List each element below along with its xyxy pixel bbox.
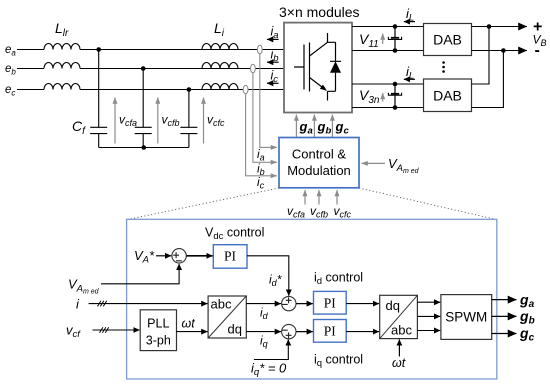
arrow sum2 to PI2 xyxy=(296,303,313,305)
inductor Llr phase c xyxy=(44,84,80,90)
arrow out gc xyxy=(492,333,517,335)
svg-text:Control &: Control & xyxy=(292,147,347,162)
PI block 3 xyxy=(314,320,347,343)
svg-text:dq: dq xyxy=(386,298,400,313)
wire module out D xyxy=(352,107,424,109)
capacitor Cf phase a xyxy=(90,50,107,148)
arrow id to sum2 xyxy=(246,303,281,305)
SPWM block xyxy=(441,295,492,340)
svg-text:abc: abc xyxy=(211,297,232,312)
PLL block xyxy=(140,310,176,351)
svg-text:3-ph: 3-ph xyxy=(146,334,171,348)
arrow V11 xyxy=(382,34,384,45)
svg-text:PI: PI xyxy=(224,249,237,264)
arrow VA* into sum1 xyxy=(156,255,171,257)
wire plus rail to DAB2 xyxy=(472,27,490,85)
svg-text:dq: dq xyxy=(228,322,242,337)
current sensor phase c xyxy=(243,85,248,93)
svg-text:3×n modules: 3×n modules xyxy=(279,4,360,20)
wire iq* = 0 to sum3 xyxy=(254,339,288,359)
inductor Li phase a xyxy=(202,44,238,50)
summing junction S2 xyxy=(282,296,296,310)
inductor Llr phase b xyxy=(44,63,80,69)
converter module box xyxy=(284,23,352,113)
wire minus rail to DAB2 xyxy=(472,51,504,108)
Control and Modulation box xyxy=(279,138,359,188)
wire sensor a to control xyxy=(260,54,277,148)
svg-text:Modulation: Modulation xyxy=(287,163,351,178)
wire module out B xyxy=(352,50,424,52)
abc-dq block xyxy=(208,296,246,338)
arrow sum3 to PI3 xyxy=(296,331,313,333)
svg-text:-: - xyxy=(535,42,540,59)
wire DAB1 to plus xyxy=(472,26,528,28)
arrows dq-abc to SPWM xyxy=(417,301,440,303)
arrow vcfa xyxy=(114,98,116,144)
DAB box 1 xyxy=(424,24,472,56)
svg-text:PLL: PLL xyxy=(147,317,169,331)
three-phase slash vcf xyxy=(100,327,109,333)
capacitor V3n xyxy=(388,84,401,108)
wire sensor c to control xyxy=(246,94,277,176)
IGBT emitter arrow xyxy=(320,85,327,91)
wire phase c xyxy=(17,89,284,91)
svg-text:PI: PI xyxy=(324,324,337,339)
detail outer box xyxy=(127,219,497,379)
node on eb xyxy=(141,66,146,71)
svg-text:abc: abc xyxy=(391,323,412,338)
arrow sum1 to PI1 xyxy=(186,255,212,257)
inductor Li phase c xyxy=(202,84,238,90)
wire sensor b to control xyxy=(253,72,277,162)
wire phase a xyxy=(17,49,284,51)
summing junction S3 xyxy=(282,324,296,338)
wire PI1 to sum2 xyxy=(247,256,289,296)
wire vcf to PLL xyxy=(93,329,140,331)
dots vertical ellipsis xyxy=(442,61,445,73)
wire phase b xyxy=(17,68,284,70)
dq-abc block xyxy=(380,295,418,338)
svg-text:ωt: ωt xyxy=(182,317,196,331)
summing junction S1 xyxy=(172,249,186,263)
node bus xyxy=(142,145,147,150)
IGBT Q1 xyxy=(294,33,336,101)
capacitor Cf phase c xyxy=(180,90,197,148)
capacitor V11 xyxy=(388,27,401,51)
arrow vcfc xyxy=(203,98,205,144)
callout dotted right xyxy=(359,188,497,220)
callout dotted left xyxy=(127,188,279,220)
arrow wt 2 xyxy=(398,339,400,356)
svg-text:SPWM: SPWM xyxy=(445,310,487,325)
svg-text:DAB: DAB xyxy=(433,88,462,104)
node plus rail xyxy=(487,24,492,29)
gate arrows ga gb gc into module xyxy=(295,115,297,138)
capacitor Cf phase b xyxy=(135,69,152,148)
wire module out A xyxy=(352,26,424,28)
node on ec xyxy=(187,87,192,92)
arrows vcf into control bottom xyxy=(304,190,306,205)
wire i to abc-dq xyxy=(89,303,208,305)
DAB box 2 xyxy=(424,79,472,112)
arrow out ga xyxy=(492,299,517,301)
PI block 1 xyxy=(213,245,247,269)
inductor Llr phase a xyxy=(44,44,80,50)
arrow vcfb xyxy=(157,98,159,144)
svg-text:DAB: DAB xyxy=(433,32,462,48)
svg-text:ωt: ωt xyxy=(392,356,406,370)
svg-text:PI: PI xyxy=(324,296,337,311)
arrow V3n xyxy=(382,93,384,102)
wire bottom bus xyxy=(99,147,189,149)
node minus rail xyxy=(501,48,506,53)
current sensor phase b xyxy=(251,64,256,72)
arrow iq to sum3 xyxy=(246,331,281,333)
current sensor phase a xyxy=(257,45,262,53)
three-phase slash i xyxy=(98,301,107,307)
arrow VAmed into control xyxy=(362,162,386,164)
wire VAmed to sum1 xyxy=(101,264,179,284)
PI block 2 xyxy=(314,291,347,314)
inductor Li phase b xyxy=(202,63,238,69)
diode D1 xyxy=(330,42,341,91)
wire module out C xyxy=(352,83,424,85)
arrow out gb xyxy=(492,315,517,317)
arrow PI2 to dq-abc xyxy=(346,303,379,305)
arrow PI3 to dq-abc xyxy=(346,331,379,333)
arrow PLL to abc-dq xyxy=(177,331,208,333)
wire DAB1 to minus xyxy=(472,50,528,52)
node on ea xyxy=(96,47,101,52)
